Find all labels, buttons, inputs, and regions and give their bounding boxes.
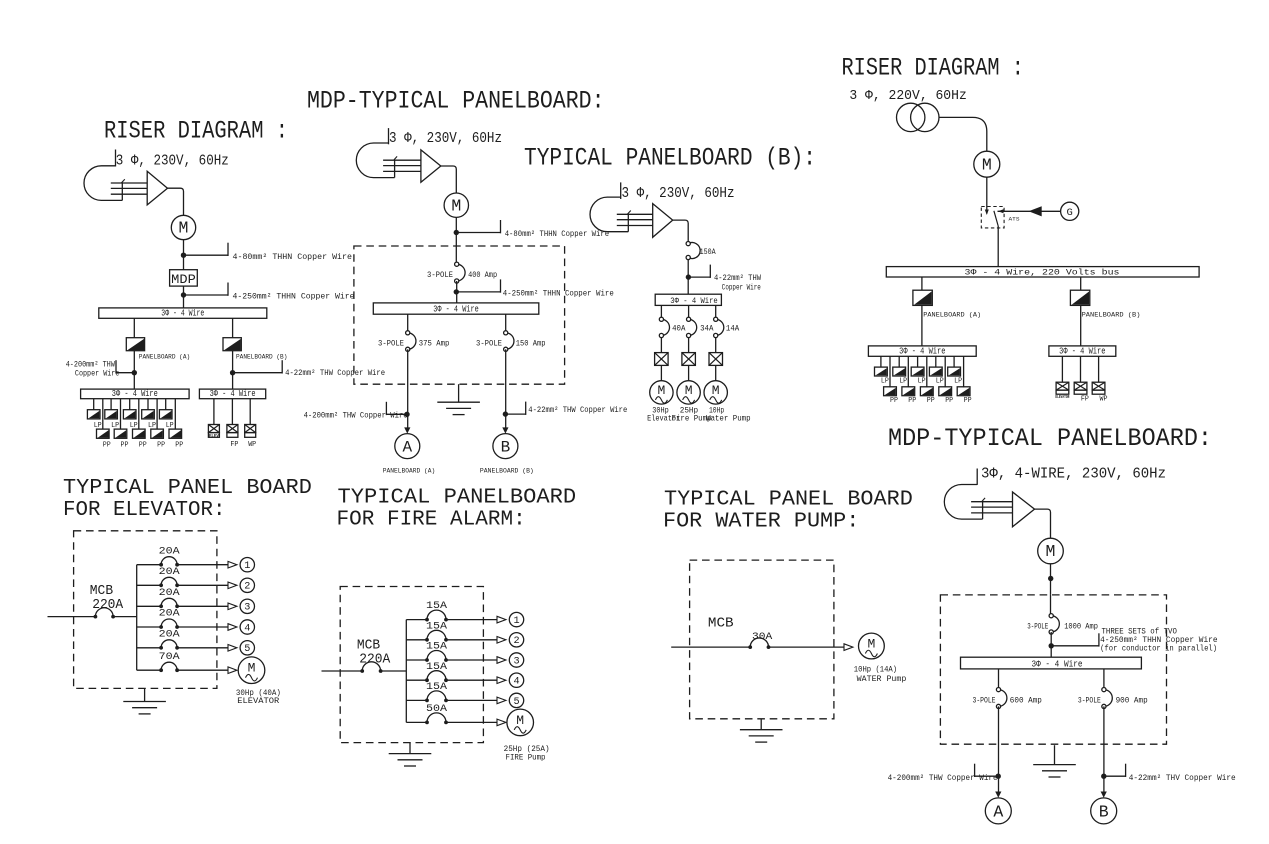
arrow into ATS from utility [985,210,989,216]
dashed enclosure MDP panel (BR) [940,595,1166,744]
service entrance TL arrow tick on phase line [121,179,125,183]
svg-text:4: 4 [513,677,519,688]
breaker PP2 (TL) [114,429,127,438]
svg-text:70A: 70A [159,651,181,663]
voltage label tick (mid) [388,128,390,144]
label 4-200mm THW (A) junction dot [132,370,137,375]
MDP box [170,270,198,286]
wire breaker to disconnect 3 (PB B) [715,338,717,353]
service entrance PB-B arrow tick on phase line [627,211,631,215]
wire breaker to sub-bus A (TR) [921,305,923,346]
service entrance TL meter M [171,215,195,239]
wire breaker B to junction [232,351,234,389]
svg-text:PP: PP [175,441,183,449]
breaker PP1 (TL) [97,429,110,438]
breaker LP1 (TL) [87,410,100,419]
svg-text:4-250mm² THHN Copper Wire: 4-250mm² THHN Copper Wire [503,289,614,299]
svg-text:MDP-TYPICAL PANELBOARD:: MDP-TYPICAL PANELBOARD: [307,87,605,116]
dashed enclosure elevator panel [74,531,217,689]
branch breaker 15A circuit 1 (fire) [427,610,446,619]
svg-text:3Φ - 4 Wire: 3Φ - 4 Wire [161,309,204,319]
wire meter to junction (BR) [1050,564,1052,595]
breaker LP5 (TR) [948,367,961,376]
branch wire 6 left (elevator) [137,669,161,671]
branch breaker 50A circuit 6 (fire) [427,713,446,723]
label 4-22mm THW (PB B) leader line [688,276,710,278]
service entrance MID service drop vertical [394,160,396,178]
svg-text:3Φ, 4-WIRE, 230V, 60Hz: 3Φ, 4-WIRE, 230V, 60Hz [981,467,1166,483]
MDP panel (mid) ground symbol [458,384,460,402]
svg-text:A: A [993,802,1003,821]
bus 3PH-4 Wire (BR) [961,657,1142,669]
label 4-80mm THHN (mid) junction dot [454,230,459,235]
arrow on generator wire [1029,206,1042,216]
service entrance BR weatherhead loop [944,485,982,520]
svg-text:PP: PP [908,397,916,405]
service entrance BR meter M [1038,538,1064,564]
circuit number 4 circle (fire) [509,673,523,687]
label 4-22mm THW (mid B) junction dot [503,411,508,416]
svg-text:30A: 30A [752,631,773,643]
breaker PP3 (TR) [920,387,933,396]
arrow circuit 2 (elevator) [228,582,237,589]
motor water pump 10Hp [859,633,885,659]
wire bus to breaker 40A [660,305,662,319]
svg-text:M: M [1046,542,1056,561]
svg-text:TYPICAL PANELBOARD (B):: TYPICAL PANELBOARD (B): [524,144,816,173]
wire to disconnect 1 (TL panel B) [213,399,215,425]
circuit number 3 circle (elevator) [240,599,254,613]
service entrance BR arrow tick on phase line [982,498,986,502]
wire to PP4 (TL) [156,399,158,429]
branch wire 3 left (elevator) [137,605,161,607]
svg-text:3: 3 [513,656,519,667]
svg-text:G: G [1067,207,1073,219]
wire to disconnect 1 (TR panel B) [1061,356,1063,382]
dashed enclosure fire alarm panel [340,587,483,743]
svg-text:20A: 20A [159,566,181,578]
svg-text:FIRE Pump: FIRE Pump [506,754,546,763]
wire into breaker 1000A [1050,595,1052,616]
node B circle (mid) [493,434,518,459]
wire to PP5 (TL) [174,399,176,429]
service entrance BR wire from arrow to meter [1035,509,1051,538]
wire breaker to motor (water) [769,646,845,648]
wire to LP1 (TL) [93,399,95,410]
breaker PP3 (TL) [133,429,146,438]
motor elevator 30Hp [238,657,265,684]
svg-text:LP: LP [918,377,926,385]
water pump panel ground symbol [760,719,762,730]
circuit number 4 circle (elevator) [240,620,254,634]
svg-text:34A: 34A [700,325,713,334]
node B circle (BR) [1091,798,1117,824]
label 4-80mm THHN junction dot [181,253,186,258]
breaker 3-POLE 150 Amp [506,333,514,350]
label 4-22mm THW (PB B) junction dot [686,274,691,279]
fire alarm panel ground symbol [409,743,411,754]
fused disconnect FP (TL) [227,425,238,433]
svg-text:PP: PP [890,397,898,405]
service entrance BR service arrow triangle [1013,492,1035,527]
label 4-22mm THW (B) leader line [233,372,283,374]
label 4-200mm THW (A) leader line [116,372,134,374]
svg-text:WP: WP [248,441,256,449]
service entrance BR service drop vertical [982,501,984,519]
breaker PP4 (TL) [151,429,164,438]
breaker PP1 (TR) [884,387,897,396]
service entrance BR phase line 2 [971,506,1012,508]
wire to LP3 (TR) [917,356,919,367]
breaker 3-POLE 375 Amp [408,333,416,350]
svg-text:3Φ - 4 Wire: 3Φ - 4 Wire [1032,659,1083,669]
wire to disconnect 2 (TR panel B) [1080,356,1082,382]
circuit number 1 circle (elevator) [240,558,254,572]
svg-text:4-22mm² THW Copper Wire: 4-22mm² THW Copper Wire [528,405,627,415]
svg-text:M: M [867,637,875,652]
svg-text:4-200mm² THW: 4-200mm² THW [66,360,115,369]
wire arrow to breaker 150A (PB B) [673,220,689,241]
svg-text:M: M [657,383,665,398]
svg-text:900 Amp: 900 Amp [1116,696,1148,705]
sub-bus panel B (TR) [1049,346,1116,356]
feeder wire into fire panel [322,670,363,672]
branch wire 4 left (fire) [406,679,427,681]
label 4-200mm THW (mid A) leader line [386,413,407,415]
MCB breaker 220A (elevator) [95,608,113,617]
feeder breaker panelboard B (TR) [1070,290,1089,305]
svg-text:TYPICAL PANEL BOARD: TYPICAL PANEL BOARD [664,489,913,512]
voltage label tick [115,150,117,167]
svg-text:3 Φ, 220V, 60Hz: 3 Φ, 220V, 60Hz [849,89,966,104]
svg-text:3-POLE: 3-POLE [427,271,453,280]
svg-text:LP: LP [936,377,944,385]
svg-text:RISER DIAGRAM :: RISER DIAGRAM : [842,54,1024,83]
label 4-22mm THW (mid B) leader line [505,413,525,415]
breaker 3-POLE 1000 Amp [1051,616,1059,632]
svg-text:FOR FIRE ALARM:: FOR FIRE ALARM: [337,509,526,532]
label 4-22mm THV (BR B) leader line [1104,775,1126,777]
wire breaker to disconnect 2 (PB B) [688,338,690,353]
branch wire 6 left (fire) [406,721,427,723]
circuit number 3 circle (fire) [509,653,523,667]
svg-text:LP: LP [899,377,907,385]
feeder wire into elevator panel [48,616,96,618]
svg-text:15A: 15A [426,600,448,612]
service entrance TL wire from arrow to meter [168,188,184,215]
branch wire 2 left (fire) [406,639,427,641]
svg-text:3Φ - 4 Wire: 3Φ - 4 Wire [112,389,158,399]
feeder breaker panelboard A (TR) [913,290,932,305]
arrow circuit 6 (elevator) [228,667,237,674]
wire breaker 1000A to junction [1050,632,1052,657]
wire bus to panelboard B breaker (TR) [1080,277,1082,290]
fused disconnect ELEV (TL) [208,425,219,433]
svg-text:1: 1 [513,616,519,627]
service entrance TL phase line 1 [111,182,147,184]
branch wire 5 right (fire) [446,699,497,701]
wire generator to ATS [998,210,1061,212]
label three sets TVO leader line [1051,645,1099,647]
svg-text:20A: 20A [159,587,181,599]
svg-text:2: 2 [513,636,519,647]
service entrance TL service arrow triangle [147,171,167,205]
MCB breaker 220A (fire) [362,662,380,671]
wire bus to breaker 375A [407,314,409,333]
svg-text:M: M [685,383,693,398]
branch wire 3 left (fire) [406,659,427,661]
svg-text:3-POLE: 3-POLE [1027,622,1048,631]
branch wire 6 right (elevator) [177,669,228,671]
branch wire 4 right (fire) [446,679,497,681]
label three sets TVO junction dot [1049,643,1054,648]
breaker PP5 (TR) [957,387,970,396]
sub-bus panel B (TL) [199,389,265,399]
breaker 40A (PB B) [661,319,669,335]
wire meter to junction (mid) [455,217,457,246]
service entrance TL service drop vertical [121,182,123,200]
wire to PP3 (TL) [138,399,140,429]
svg-text:3: 3 [244,603,250,614]
wire to PP5 (TR) [963,356,965,387]
sub-bus panel A (TR) [868,346,976,356]
branch wire 6 right (fire) [446,721,497,723]
svg-text:50A: 50A [426,703,448,715]
voltage label tick (BR) [976,469,978,485]
wire to LP2 (TR) [898,356,900,367]
service entrance BR phase line 1 [971,501,1012,503]
fused disconnect 3 (PB B) [709,353,723,366]
breaker 3-POLE 400 Amp [457,264,465,281]
breaker 14A (PB B) [716,319,724,335]
main bus 3PH-4 Wire (TL) [99,308,267,318]
wire breaker 900A to panelboard B (BR) [1103,706,1105,791]
wire breaker to sub-bus B (TR) [1080,305,1082,346]
wire to PP3 (TR) [926,356,928,387]
svg-text:ELEVATOR: ELEVATOR [237,697,279,706]
label 4-200mm THW (BR A) leader line [975,775,999,777]
svg-text:3-POLE: 3-POLE [973,696,996,705]
branch wire 4 right (elevator) [177,626,228,628]
service entrance PB-B weatherhead loop [590,197,628,232]
wire disconnect to motor 1 (PB B) [660,365,662,380]
label 4-22mm THV (BR B) junction dot [1101,774,1106,779]
svg-text:3Φ - 4 Wire: 3Φ - 4 Wire [1059,347,1105,357]
wire meter to ATS [986,177,988,213]
branch breaker 20A circuit 4 (elevator) [161,619,177,627]
wire MCB to distribution (elevator) [113,616,137,618]
breaker 3-POLE 600 Amp [999,690,1007,707]
wire breaker 375A to panelboard A [407,349,409,427]
branch breaker 15A circuit 5 (fire) [427,691,446,701]
svg-text:WP: WP [1100,395,1108,403]
svg-text:40A: 40A [672,325,685,334]
wire to LP3 (TL) [129,399,131,410]
svg-text:5: 5 [513,697,519,708]
svg-text:PP: PP [927,397,935,405]
svg-text:3Φ - 4 Wire: 3Φ - 4 Wire [210,389,256,399]
label 4-250mm THHN (mid) junction dot [454,289,459,294]
svg-text:PANELBOARD (A): PANELBOARD (A) [383,467,435,475]
breaker LP3 (TL) [123,410,136,419]
svg-text:4: 4 [244,623,250,634]
arrow circuit 1 (elevator) [228,561,237,568]
branch wire 1 right (elevator) [177,564,228,566]
svg-text:3-POLE: 3-POLE [378,339,404,348]
svg-text:M: M [179,219,189,238]
arrow circuit 4 (elevator) [228,624,237,631]
wire breaker 600A to panelboard A (BR) [998,706,1000,791]
branch breaker 20A circuit 5 (elevator) [161,640,177,648]
motor fire pump 25Hp [507,709,534,736]
svg-text:M: M [248,661,256,676]
svg-text:PP: PP [103,441,111,449]
wire to disconnect 3 (TR panel B) [1098,356,1100,382]
transformer circle 2 [911,103,939,131]
arrow to panelboard B (mid) [502,427,508,433]
transformer circle 1 [897,103,925,131]
junction dot below meter (BR) [1048,576,1053,581]
branch wire 2 right (elevator) [177,584,228,586]
service entrance PB-B phase line 3 [617,225,653,227]
dashed enclosure MDP panel (mid) [354,246,565,384]
breaker LP2 (TL) [105,410,118,419]
wire breaker 400A to junction [456,281,458,303]
wire bus to panelboard A breaker [133,318,135,337]
branch breaker 15A circuit 3 (fire) [427,651,446,661]
svg-text:1000 Amp: 1000 Amp [1064,622,1098,631]
arrow circuit 5 (fire) [497,697,506,704]
arrow circuit 2 (fire) [497,637,506,644]
branch wire 5 right (elevator) [177,647,228,649]
circuit number 5 circle (elevator) [240,641,254,655]
svg-text:Copper Wire: Copper Wire [75,368,120,378]
wire breaker 150A to panelboard B [505,349,507,427]
svg-text:ELEV: ELEV [209,433,219,439]
wire breaker A to junction [133,351,135,389]
service entrance MID weatherhead loop [356,143,394,178]
arrow to panelboard A (mid) [404,427,410,433]
svg-text:3Φ - 4 Wire: 3Φ - 4 Wire [433,305,479,315]
arrow circuit 4 (fire) [497,677,506,684]
main bus 220 volts (TR) [886,267,1199,277]
circuit number 2 circle (fire) [509,633,523,647]
fused disconnect WP (TR) [1092,382,1105,390]
svg-text:MCB: MCB [708,616,734,632]
svg-text:15A: 15A [426,641,448,653]
svg-text:B: B [501,439,511,457]
arrow to panelboard B (BR) [1101,792,1107,798]
node A circle (BR) [985,798,1011,824]
breaker 3-POLE 900 Amp [1104,690,1112,707]
arrow to water pump motor [844,644,853,651]
svg-text:TYPICAL PANEL BOARD: TYPICAL PANEL BOARD [63,477,312,500]
svg-text:375 Amp: 375 Amp [419,339,450,348]
fused disconnect FP (TR) [1074,382,1087,390]
branch breaker 20A circuit 3 (elevator) [161,598,177,606]
label 4-250mm THHN junction dot [181,292,186,297]
MCB breaker 30A (water) [750,638,768,647]
ATS dashed box [981,207,1004,228]
arrow into ATS from generator [998,209,1004,213]
svg-text:Water Pump: Water Pump [706,415,751,424]
svg-text:600 Amp: 600 Amp [1010,696,1042,705]
service entrance PB-B service arrow triangle [653,204,673,238]
label 4-22mm THW (B) junction dot [230,370,235,375]
service entrance PB-B service drop vertical [627,214,629,232]
wire to LP5 (TL) [165,399,167,410]
svg-text:400 Amp: 400 Amp [468,271,497,280]
svg-text:WATER Pump: WATER Pump [857,675,907,684]
arrow to panelboard A (BR) [995,792,1001,798]
svg-text:LP: LP [881,377,889,385]
svg-text:MDP: MDP [171,273,196,287]
breaker LP1 (TR) [875,367,888,376]
svg-text:3-POLE: 3-POLE [476,339,502,348]
wire to PP1 (TL) [102,399,104,429]
wire MDP to junction [183,286,185,308]
service entrance PB-B phase line 2 [617,219,653,221]
svg-text:3 Φ, 230V, 60Hz: 3 Φ, 230V, 60Hz [116,154,229,170]
branch wire 3 right (fire) [446,659,497,661]
circuit number 1 circle (fire) [509,612,523,626]
breaker LP4 (TR) [929,367,942,376]
branch wire 3 right (elevator) [177,605,228,607]
fused disconnect 1 (PB B) [655,353,669,366]
wire breaker to disconnect 1 (PB B) [660,338,662,353]
service entrance MID phase line 2 [383,165,421,167]
svg-text:FP: FP [1081,395,1089,403]
wire junction to breaker 400A [455,246,457,264]
svg-text:LP: LP [954,377,962,385]
breaker 150A (PB B) [688,243,700,259]
svg-text:20A: 20A [159,628,181,640]
svg-text:PP: PP [121,441,129,449]
svg-text:M: M [451,196,461,215]
service entrance MID wire from arrow to meter [441,166,457,193]
branch wire 1 left (elevator) [137,564,161,566]
circuit number 5 circle (fire) [509,693,523,707]
svg-text:ELEVATOR: ELEVATOR [1055,394,1069,400]
wire disconnect to motor 2 (PB B) [688,365,690,380]
svg-text:4-200mm² THW Copper Wire: 4-200mm² THW Copper Wire [304,411,408,421]
branch wire 1 right (fire) [446,619,497,621]
wire to PP2 (TL) [120,399,122,429]
wire disconnect to motor 3 (PB B) [715,365,717,380]
svg-text:20A: 20A [159,545,181,557]
svg-text:150A: 150A [700,248,716,257]
svg-text:20A: 20A [159,608,181,620]
svg-text:25Hp (25A): 25Hp (25A) [504,744,550,754]
feeder breaker panelboard B (TL) [223,338,241,351]
voltage label tick (PB B) [620,182,622,199]
svg-text:4-200mm² THW Copper Wire: 4-200mm² THW Copper Wire [888,773,998,783]
svg-text:15A: 15A [426,620,448,632]
branch wire 2 right (fire) [446,639,497,641]
feeder wire into water pump panel [671,646,750,648]
service entrance MID phase line 3 [383,170,421,172]
branch breaker 15A circuit 4 (fire) [427,671,446,681]
breaker PP5 (TL) [169,429,182,438]
svg-text:5: 5 [244,644,250,655]
svg-text:4-80mm² THHN Copper Wire: 4-80mm² THHN Copper Wire [233,252,353,262]
wire bus to panelboard A breaker (TR) [921,277,923,290]
wire to PP4 (TR) [944,356,946,387]
branch breaker 70A circuit 6 (elevator) [161,662,177,670]
branch breaker 20A circuit 1 (elevator) [161,557,177,565]
svg-text:4-22mm² THV Copper Wire: 4-22mm² THV Copper Wire [1129,773,1236,783]
wire to LP4 (TL) [147,399,149,410]
